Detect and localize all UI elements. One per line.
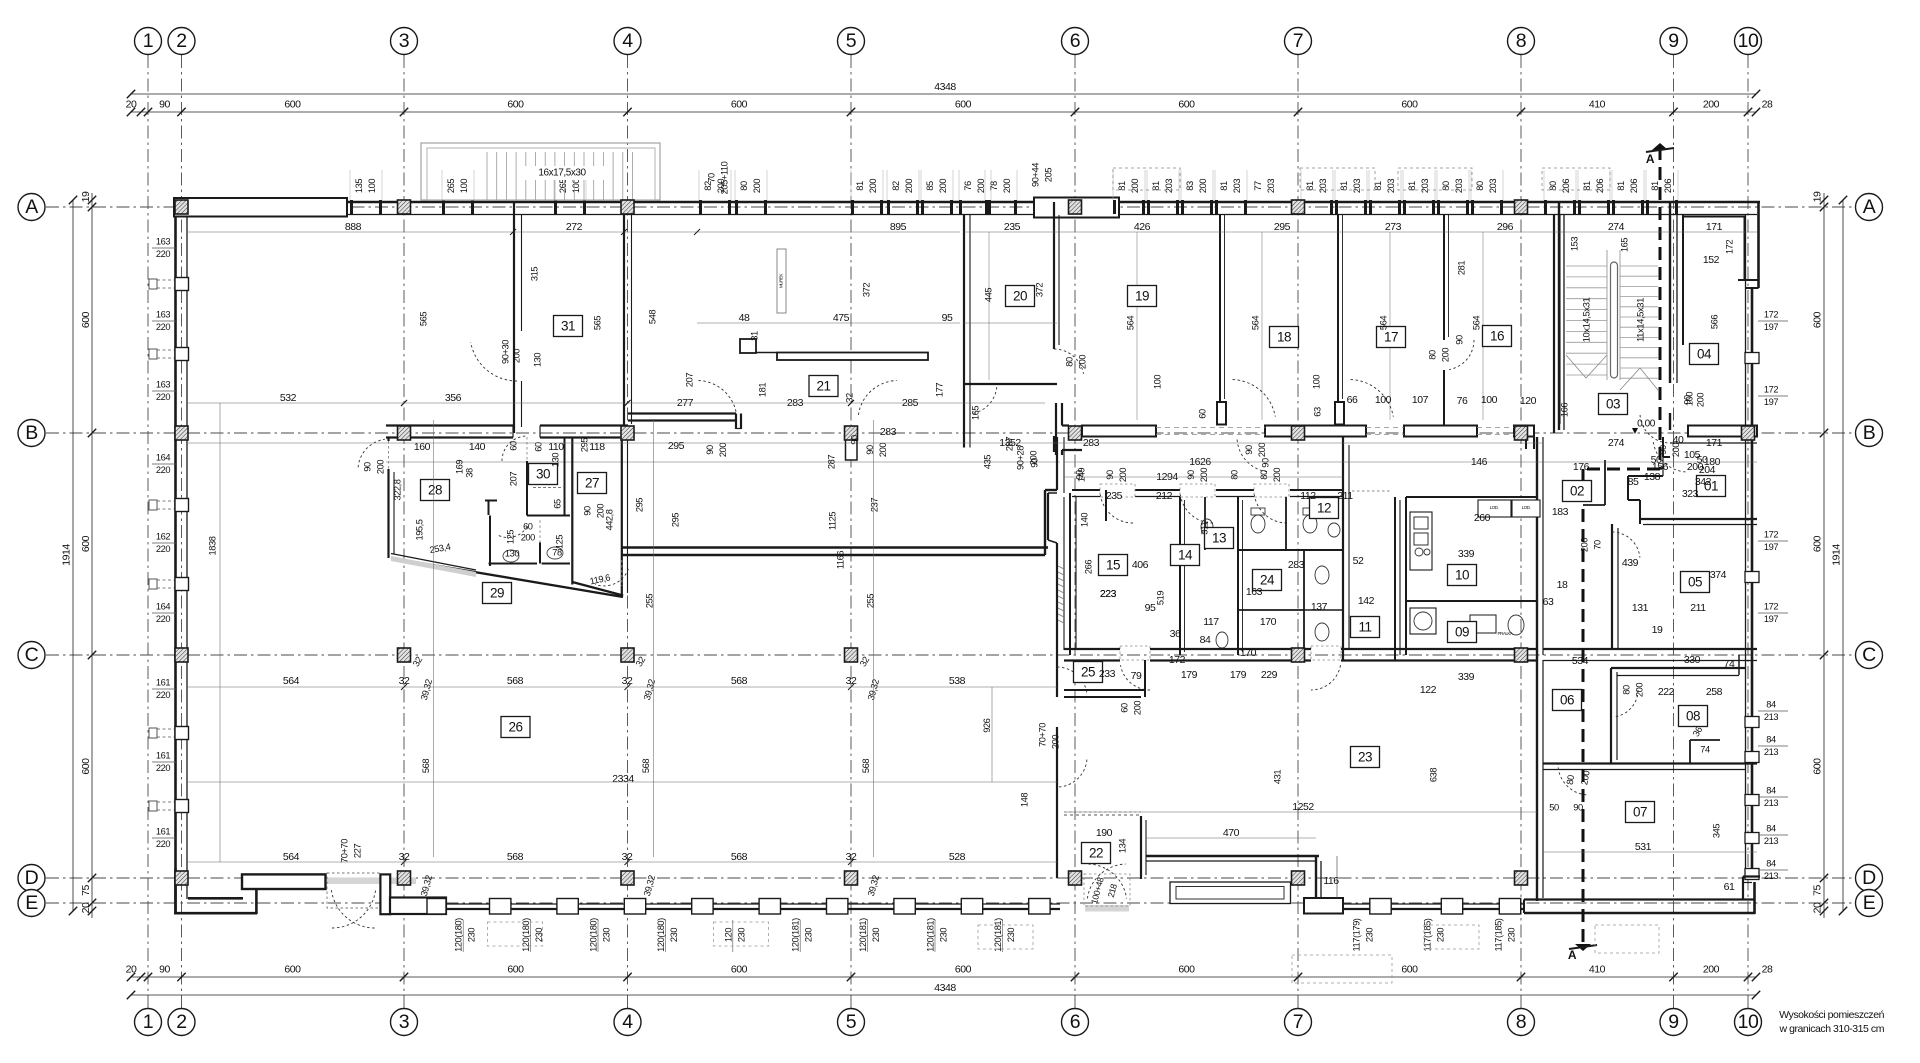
room 05 door — [1612, 532, 1640, 558]
svg-text:4348: 4348 — [934, 81, 956, 93]
step corner to room 20 wing — [1044, 490, 1046, 555]
room 27 right wall — [621, 431, 623, 598]
svg-text:200: 200 — [595, 504, 605, 518]
svg-text:166: 166 — [1559, 403, 1569, 417]
svg-text:A: A — [1863, 196, 1876, 218]
room 24 — [1253, 570, 1282, 591]
svg-text:266: 266 — [1083, 560, 1093, 574]
svg-text:81: 81 — [1117, 181, 1127, 191]
svg-text:230: 230 — [1364, 928, 1374, 942]
axis bubbles left — [18, 194, 45, 221]
svg-text:81: 81 — [1339, 181, 1349, 191]
svg-text:81: 81 — [1616, 181, 1626, 191]
main corridor wall axis B — [386, 424, 513, 426]
room 30 bottom — [527, 515, 570, 517]
room 26 — [501, 717, 530, 738]
bottom wall axis E left section — [446, 903, 1060, 905]
door 90+30/200 room31 — [471, 342, 517, 381]
door 80/200 room 07 — [1558, 764, 1586, 795]
grid axis B — [46, 432, 1854, 434]
svg-text:122: 122 — [1420, 684, 1437, 696]
axis B corridor doors — [698, 381, 736, 415]
svg-text:10x14,5x31: 10x14,5x31 — [1582, 298, 1593, 343]
svg-text:258: 258 — [1706, 686, 1723, 698]
svg-text:4348: 4348 — [934, 982, 956, 994]
right wall windows — [1745, 353, 1759, 364]
svg-text:19: 19 — [80, 191, 92, 202]
room 30 shower dash — [533, 487, 561, 489]
door 70+70/200 — [1057, 667, 1087, 694]
left dimension chains — [91, 193, 93, 918]
grid axis 7 — [1297, 55, 1299, 1008]
svg-text:600: 600 — [1178, 98, 1195, 110]
svg-text:534: 534 — [1572, 655, 1589, 667]
middle wing west wall top — [1055, 403, 1057, 455]
svg-text:227: 227 — [352, 844, 362, 858]
svg-text:70+70: 70+70 — [1037, 723, 1047, 747]
svg-text:445: 445 — [983, 288, 993, 302]
dashed beam room 22 — [1064, 811, 1141, 813]
svg-text:08: 08 — [1686, 708, 1700, 723]
svg-text:200: 200 — [976, 179, 986, 193]
room 05 left wall — [1611, 524, 1613, 649]
svg-text:50: 50 — [1651, 454, 1662, 466]
svg-text:100: 100 — [1481, 394, 1498, 406]
stairwell left wall — [1558, 201, 1560, 430]
svg-text:90: 90 — [159, 963, 170, 975]
svg-text:31: 31 — [749, 331, 759, 341]
svg-text:287: 287 — [826, 455, 836, 469]
svg-text:200: 200 — [1077, 355, 1087, 369]
svg-text:197: 197 — [1764, 542, 1778, 552]
room 23/kitchen wall x=1538 — [1536, 437, 1538, 660]
svg-text:131: 131 — [1632, 602, 1649, 614]
svg-text:170: 170 — [1240, 647, 1257, 659]
svg-text:230: 230 — [736, 928, 746, 942]
svg-text:77: 77 — [1253, 181, 1263, 191]
svg-text:200: 200 — [904, 179, 914, 193]
svg-text:50: 50 — [1549, 802, 1559, 812]
svg-text:148: 148 — [1019, 793, 1029, 807]
svg-text:80: 80 — [1475, 181, 1485, 191]
svg-text:888: 888 — [345, 221, 362, 233]
room 15 left wall — [1069, 493, 1071, 655]
svg-text:564: 564 — [283, 851, 300, 863]
svg-text:28: 28 — [1762, 963, 1773, 975]
svg-text:203: 203 — [1420, 179, 1430, 193]
terrace planter — [1170, 882, 1291, 904]
wall axis C — [1064, 648, 1120, 650]
svg-text:207: 207 — [684, 373, 694, 387]
svg-text:260: 260 — [1474, 512, 1491, 524]
svg-text:117(185): 117(185) — [1493, 918, 1503, 951]
left wall windows — [175, 278, 189, 291]
room 31 — [554, 316, 583, 337]
svg-text:600: 600 — [80, 535, 92, 552]
svg-text:90: 90 — [1260, 458, 1270, 468]
svg-text:207: 207 — [508, 472, 518, 486]
svg-text:230: 230 — [1006, 928, 1016, 942]
hall dim helper lines — [187, 402, 1045, 404]
svg-text:564: 564 — [1125, 316, 1135, 330]
svg-text:60: 60 — [523, 521, 533, 531]
svg-text:E: E — [25, 892, 38, 914]
bottom wall axis E mid section (terrace) — [1319, 903, 1524, 905]
svg-text:565: 565 — [418, 312, 428, 326]
grid axis 10 — [1747, 55, 1749, 1008]
stair flight 2 — [1620, 265, 1658, 267]
svg-text:203: 203 — [1454, 179, 1464, 193]
svg-text:11x14,5x31: 11x14,5x31 — [1636, 298, 1647, 342]
svg-text:116: 116 — [1323, 875, 1339, 887]
svg-text:568: 568 — [421, 759, 431, 773]
svg-text:70: 70 — [1592, 540, 1602, 550]
room 20 bottom wall — [964, 383, 1057, 385]
svg-text:80: 80 — [1427, 350, 1437, 360]
svg-text:31: 31 — [561, 318, 575, 333]
grid axis 6 — [1074, 55, 1076, 1008]
svg-text:80: 80 — [1441, 181, 1451, 191]
room 05 — [1681, 572, 1710, 593]
stairwell right wall / room 04 left — [1669, 202, 1671, 383]
svg-text:330: 330 — [1684, 654, 1701, 666]
kitchen front wall — [1406, 496, 1537, 498]
svg-text:600: 600 — [1401, 963, 1418, 975]
svg-text:203: 203 — [1488, 179, 1498, 193]
svg-text:84: 84 — [1200, 634, 1211, 646]
room 22 walls — [1064, 814, 1141, 816]
svg-text:171: 171 — [1706, 437, 1723, 449]
exterior wall top (axis A) — [174, 201, 1760, 204]
svg-text:200: 200 — [1272, 468, 1282, 482]
grid axis 2 — [181, 55, 183, 1008]
svg-text:63: 63 — [1312, 407, 1322, 417]
svg-text:177: 177 — [934, 383, 944, 397]
svg-text:2: 2 — [176, 30, 186, 52]
svg-text:205+110: 205+110 — [719, 161, 729, 194]
svg-text:81: 81 — [855, 181, 865, 191]
svg-text:600: 600 — [1811, 311, 1823, 328]
grid axis 8 — [1520, 55, 1522, 1008]
svg-text:C: C — [25, 644, 39, 666]
svg-text:200: 200 — [1440, 348, 1450, 362]
svg-text:222: 222 — [1658, 686, 1675, 698]
corridor 11 walls — [1342, 437, 1344, 660]
svg-text:172: 172 — [1764, 309, 1778, 319]
svg-text:600: 600 — [1811, 758, 1823, 775]
window jamb extension lines — [349, 170, 351, 200]
room 07 — [1626, 802, 1655, 823]
svg-text:200: 200 — [1257, 443, 1267, 457]
svg-text:29: 29 — [490, 585, 504, 600]
room 27 bottom diagonal — [572, 582, 623, 596]
svg-text:213: 213 — [1764, 798, 1778, 808]
B openings dashed thresholds — [1156, 427, 1265, 429]
svg-text:117(179): 117(179) — [1351, 918, 1361, 951]
svg-text:81: 81 — [1151, 181, 1161, 191]
svg-text:84: 84 — [1766, 699, 1776, 709]
svg-text:200: 200 — [511, 349, 521, 363]
wall 06/08 — [1610, 668, 1612, 764]
svg-text:61: 61 — [1724, 881, 1735, 893]
room 27 left wall — [571, 437, 573, 585]
svg-text:206: 206 — [1629, 179, 1639, 193]
svg-text:60: 60 — [533, 442, 543, 452]
B band east of grid6 : piers — [1082, 426, 1156, 437]
svg-text:1125: 1125 — [827, 512, 837, 530]
svg-text:14: 14 — [1178, 547, 1193, 562]
svg-text:200: 200 — [1695, 393, 1705, 407]
svg-text:435: 435 — [982, 455, 992, 469]
svg-text:235: 235 — [1106, 490, 1123, 502]
room vertical extension lines — [1136, 232, 1138, 420]
svg-text:200: 200 — [1703, 963, 1720, 975]
svg-text:265: 265 — [446, 179, 456, 193]
svg-text:A: A — [1568, 948, 1577, 962]
svg-text:10: 10 — [1738, 30, 1759, 52]
svg-text:100: 100 — [459, 179, 469, 193]
wall grid4 (room 31 right) — [623, 202, 625, 437]
svg-text:200: 200 — [1118, 468, 1128, 482]
axis bubbles right — [1856, 194, 1883, 221]
room 08 — [1679, 706, 1708, 727]
svg-text:200: 200 — [1132, 701, 1142, 715]
svg-text:70: 70 — [706, 173, 716, 183]
svg-text:4: 4 — [622, 30, 633, 52]
svg-text:230: 230 — [1506, 928, 1516, 942]
svg-text:600: 600 — [1811, 535, 1823, 552]
room 23 — [1351, 747, 1380, 768]
dashed door rects middle wing — [1100, 484, 1135, 497]
svg-text:230: 230 — [1435, 928, 1445, 942]
room 01 — [1697, 476, 1726, 497]
svg-text:181: 181 — [757, 383, 767, 397]
svg-text:220: 220 — [156, 763, 170, 773]
svg-text:220: 220 — [156, 839, 170, 849]
svg-text:519: 519 — [1155, 591, 1165, 605]
svg-text:203: 203 — [1266, 179, 1276, 193]
svg-text:142: 142 — [1358, 595, 1375, 607]
svg-text:203: 203 — [1232, 179, 1242, 193]
svg-text:439: 439 — [1622, 557, 1639, 569]
room 28 left wall — [387, 437, 389, 441]
svg-text:600: 600 — [284, 98, 301, 110]
svg-text:3: 3 — [399, 1011, 409, 1033]
svg-text:265: 265 — [558, 179, 568, 193]
exterior wall right — [1757, 201, 1760, 288]
room 23 bottom wall — [1146, 855, 1319, 857]
room 26 right wall — [1056, 437, 1058, 490]
svg-text:926: 926 — [982, 718, 992, 732]
svg-text:410: 410 — [1589, 963, 1606, 975]
lintel dashed boxes — [1113, 168, 1180, 190]
svg-text:134: 134 — [1117, 839, 1127, 853]
svg-text:120(181): 120(181) — [858, 918, 868, 952]
svg-text:171: 171 — [1706, 221, 1723, 233]
bath 12 fixtures — [1251, 515, 1265, 533]
svg-text:78: 78 — [989, 181, 999, 191]
room 25 walls — [1064, 689, 1145, 691]
svg-text:C: C — [1862, 644, 1876, 666]
svg-text:274: 274 — [1608, 437, 1625, 449]
svg-text:120(181): 120(181) — [993, 918, 1003, 952]
room 28 — [421, 480, 450, 501]
svg-text:100: 100 — [571, 179, 581, 193]
svg-text:60: 60 — [1119, 703, 1129, 713]
svg-text:220: 220 — [156, 465, 170, 475]
svg-text:213: 213 — [1764, 871, 1778, 881]
right dimension chains — [1823, 193, 1825, 918]
svg-text:130: 130 — [505, 548, 519, 558]
svg-text:528: 528 — [949, 851, 966, 863]
svg-text:339: 339 — [1458, 671, 1475, 683]
svg-text:161: 161 — [156, 677, 170, 687]
svg-text:237: 237 — [869, 498, 879, 512]
svg-text:5: 5 — [846, 30, 857, 52]
svg-text:211: 211 — [1337, 490, 1353, 502]
svg-text:18: 18 — [1557, 579, 1568, 591]
svg-text:118: 118 — [589, 441, 605, 453]
laundry fixtures — [1410, 608, 1436, 634]
svg-text:233: 233 — [1099, 668, 1116, 680]
room 11 — [1351, 617, 1380, 638]
window strip wall 26/15 — [1058, 566, 1064, 569]
svg-text:8: 8 — [1516, 30, 1526, 52]
svg-text:22: 22 — [1089, 845, 1103, 860]
bottom wall right section — [1524, 898, 1755, 900]
svg-text:600: 600 — [80, 758, 92, 775]
svg-text:197: 197 — [1764, 614, 1778, 624]
middle wing room entrance wall (south of corridor) — [1072, 489, 1100, 491]
svg-text:564: 564 — [283, 675, 300, 687]
hatched columns — [175, 200, 188, 214]
terrace bottom wall piece — [1304, 898, 1343, 914]
svg-text:83: 83 — [1185, 181, 1195, 191]
svg-text:564: 564 — [1250, 316, 1260, 330]
room 20 left wall — [963, 215, 965, 448]
room 20 — [1006, 286, 1035, 307]
wall room16/stair — [1553, 215, 1555, 433]
svg-text:183: 183 — [1552, 506, 1569, 518]
svg-text:90: 90 — [159, 98, 170, 110]
svg-text:w granicach 310-315 cm: w granicach 310-315 cm — [1779, 1023, 1885, 1035]
svg-text:342: 342 — [1695, 476, 1712, 488]
stair flight 1 — [1566, 265, 1607, 267]
svg-text:100: 100 — [1684, 392, 1694, 406]
svg-text:281: 281 — [1456, 261, 1466, 275]
room 04 door — [1640, 413, 1667, 443]
kitchen/laundry partition — [1406, 600, 1538, 602]
room 20/19 wall — [1053, 202, 1055, 349]
svg-text:74: 74 — [1724, 658, 1735, 670]
pier below column B/5 — [846, 440, 858, 461]
svg-text:135: 135 — [354, 179, 364, 193]
svg-text:32: 32 — [399, 675, 410, 687]
svg-text:09: 09 — [1455, 624, 1469, 639]
top wall window jambs — [350, 200, 353, 214]
svg-text:230: 230 — [467, 928, 477, 942]
svg-text:426: 426 — [1134, 221, 1151, 233]
grid axis 5 — [850, 55, 852, 1008]
svg-text:74: 74 — [1700, 744, 1710, 754]
grid axis 1 — [147, 55, 149, 1008]
svg-text:D: D — [1862, 867, 1876, 889]
svg-text:E: E — [1863, 892, 1876, 914]
svg-text:295: 295 — [634, 498, 644, 512]
kitchen 10 left wall — [1405, 497, 1407, 655]
svg-text:80: 80 — [1064, 357, 1074, 367]
svg-text:220: 220 — [156, 249, 170, 259]
svg-text:475: 475 — [833, 312, 850, 324]
svg-text:568: 568 — [731, 851, 748, 863]
svg-text:80: 80 — [739, 181, 749, 191]
svg-text:372: 372 — [861, 283, 871, 297]
room 03 — [1599, 394, 1628, 415]
top dimension chains — [131, 93, 1756, 95]
svg-text:66: 66 — [1347, 394, 1358, 406]
svg-text:50: 50 — [1697, 454, 1708, 466]
room 23 right wall — [1536, 660, 1538, 901]
partition bar room 21 — [777, 353, 928, 361]
stair rail — [1611, 262, 1618, 378]
svg-text:15: 15 — [1106, 557, 1120, 572]
svg-text:32: 32 — [846, 851, 857, 863]
room 11 door dashed — [1352, 490, 1390, 492]
small wall piece room 21 left — [740, 339, 756, 353]
room 30 — [529, 464, 558, 485]
svg-text:172: 172 — [1169, 654, 1186, 666]
svg-text:2: 2 — [176, 1011, 186, 1033]
svg-text:100: 100 — [1311, 375, 1321, 389]
svg-text:Wysokości pomieszczeń: Wysokości pomieszczeń — [1779, 1009, 1884, 1021]
svg-text:38: 38 — [464, 468, 474, 478]
svg-text:287: 287 — [1004, 437, 1014, 451]
svg-text:130: 130 — [532, 353, 542, 367]
svg-text:06: 06 — [1560, 692, 1574, 707]
svg-text:200: 200 — [521, 532, 535, 542]
svg-text:600: 600 — [731, 963, 748, 975]
svg-text:90+44: 90+44 — [1030, 163, 1040, 187]
door 80/200 room 08 — [1613, 690, 1638, 717]
terrace right wall — [1315, 856, 1317, 899]
bottom dashed boxes — [488, 922, 543, 946]
wall top of room 08 — [1611, 667, 1745, 669]
svg-text:163: 163 — [156, 309, 170, 319]
svg-text:220: 220 — [156, 614, 170, 624]
room 18 — [1270, 327, 1299, 348]
svg-text:B: B — [1863, 422, 1876, 444]
svg-text:04: 04 — [1697, 346, 1712, 361]
svg-text:0,00: 0,00 — [1637, 419, 1656, 430]
svg-text:11: 11 — [1358, 619, 1371, 634]
murek (low wall) room 21 — [777, 249, 786, 313]
room 29 ramp shading — [391, 556, 476, 577]
svg-text:565: 565 — [592, 316, 602, 330]
svg-text:532: 532 — [280, 392, 297, 404]
svg-text:32: 32 — [622, 851, 633, 863]
room 25 — [1074, 662, 1103, 683]
svg-text:406: 406 — [1132, 559, 1149, 571]
partition 28/30 — [526, 461, 528, 516]
room 22 — [1082, 843, 1111, 864]
room 16 — [1483, 326, 1512, 347]
svg-text:90: 90 — [1074, 470, 1084, 480]
svg-text:138: 138 — [1644, 471, 1661, 483]
svg-text:203: 203 — [1318, 179, 1328, 193]
svg-text:200: 200 — [878, 443, 888, 457]
svg-text:60: 60 — [1197, 409, 1207, 419]
svg-text:20: 20 — [80, 902, 92, 913]
